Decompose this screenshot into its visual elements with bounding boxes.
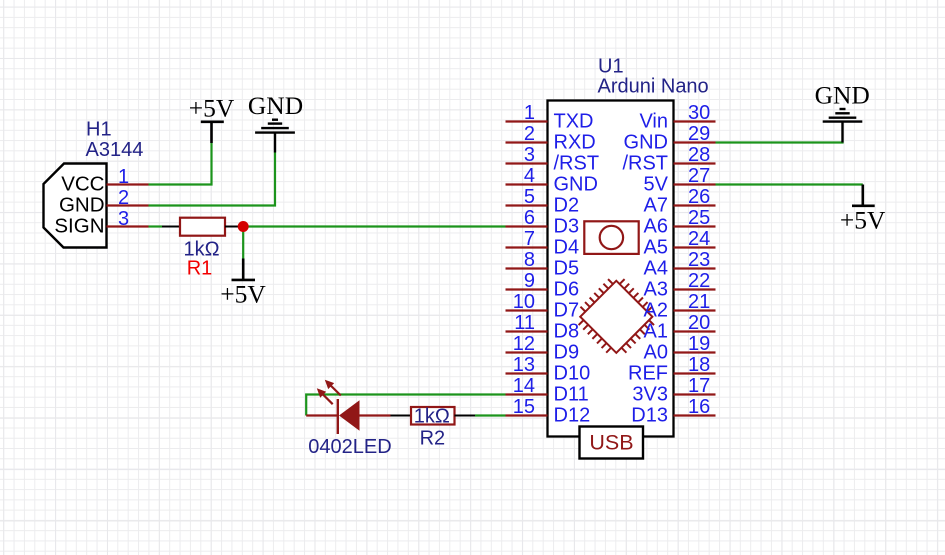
svg-text:26: 26 — [688, 186, 710, 208]
LED cathode bar — [337, 399, 339, 434]
svg-text:2: 2 — [118, 187, 129, 209]
svg-text:7: 7 — [524, 228, 535, 250]
wire junction to U1 pin 6 D3 — [243, 225, 505, 227]
svg-text:20: 20 — [688, 312, 710, 334]
svg-text:3: 3 — [118, 208, 129, 230]
svg-text:VCC: VCC — [61, 173, 104, 196]
ground symbol right — [823, 109, 863, 143]
svg-text:TXD: TXD — [554, 111, 594, 133]
svg-text:+5V: +5V — [189, 93, 235, 122]
resistor R2 body — [411, 407, 455, 425]
svg-text:U1: U1 — [598, 55, 624, 77]
svg-text:+5V: +5V — [220, 279, 266, 308]
svg-text:A0: A0 — [644, 342, 668, 364]
svg-text:28: 28 — [688, 144, 710, 166]
svg-text:3V3: 3V3 — [632, 384, 668, 406]
svg-text:13: 13 — [513, 354, 535, 376]
svg-text:Arduni Nano: Arduni Nano — [598, 76, 709, 98]
svg-text:5V: 5V — [644, 174, 669, 196]
svg-text:8: 8 — [524, 249, 535, 271]
svg-text:Vin: Vin — [639, 111, 668, 133]
svg-text:H1: H1 — [86, 119, 112, 141]
LED LED1 0402LED — [306, 380, 390, 434]
svg-text:30: 30 — [688, 102, 710, 124]
U1 reset button rectangle — [584, 221, 638, 254]
svg-text:A7: A7 — [644, 195, 668, 217]
svg-text:D10: D10 — [554, 363, 591, 385]
svg-text:27: 27 — [688, 165, 710, 187]
svg-text:GND: GND — [554, 174, 598, 196]
svg-text:D8: D8 — [554, 321, 580, 343]
svg-text:15: 15 — [513, 396, 535, 418]
svg-text:D3: D3 — [554, 216, 580, 238]
+5V power symbol right — [852, 185, 875, 206]
svg-text:1kΩ: 1kΩ — [414, 406, 450, 428]
wire U1 pin29 GND to ground right — [716, 141, 843, 144]
U1 USB connector box — [580, 427, 644, 459]
svg-text:1: 1 — [524, 102, 535, 124]
svg-text:GND: GND — [59, 194, 105, 217]
svg-text:D13: D13 — [631, 405, 668, 427]
svg-text:22: 22 — [688, 270, 710, 292]
svg-text:5: 5 — [524, 186, 535, 208]
svg-text:9: 9 — [524, 270, 535, 292]
svg-text:D7: D7 — [554, 300, 580, 322]
svg-text:/RST: /RST — [622, 153, 668, 175]
svg-text:A3144: A3144 — [86, 139, 144, 161]
resistor R1 lead left — [162, 226, 180, 228]
svg-text:/RST: /RST — [554, 153, 600, 175]
svg-text:D2: D2 — [554, 195, 580, 217]
svg-text:17: 17 — [688, 375, 710, 397]
svg-text:D12: D12 — [554, 405, 591, 427]
svg-text:3: 3 — [524, 144, 535, 166]
ground symbol top-left — [255, 120, 295, 153]
svg-text:4: 4 — [524, 165, 535, 187]
U1 left pins 1-15 — [306, 80, 886, 458]
+5V power symbol top-left — [201, 122, 224, 143]
svg-text:A5: A5 — [644, 237, 668, 259]
svg-text:D5: D5 — [554, 258, 580, 280]
svg-text:A2: A2 — [644, 300, 668, 322]
svg-text:A6: A6 — [644, 216, 668, 238]
U1 left pin names — [554, 111, 600, 427]
resistor R2 lead left — [391, 415, 412, 417]
svg-text:GND: GND — [815, 80, 870, 109]
svg-text:29: 29 — [688, 123, 710, 145]
U1 reset button circle — [600, 226, 623, 249]
wire junction to +5V below — [242, 227, 244, 259]
svg-text:D9: D9 — [554, 342, 580, 364]
H1 pin 1 stub — [107, 183, 149, 185]
svg-text:2: 2 — [524, 123, 535, 145]
svg-text:0402LED: 0402LED — [308, 436, 391, 458]
svg-text:6: 6 — [524, 207, 535, 229]
resistor R1 lead right — [225, 226, 243, 228]
LED emission arrow 2 — [325, 380, 341, 396]
svg-text:A3: A3 — [644, 279, 668, 301]
U1 right pin names — [622, 111, 668, 427]
resistor R1 body — [180, 218, 225, 236]
svg-text:USB: USB — [589, 431, 633, 455]
svg-text:D11: D11 — [554, 384, 589, 406]
H1 pin 3 stub — [107, 225, 149, 227]
LED emission arrow 1 — [317, 388, 333, 404]
U1 right pins 30-16 — [674, 122, 716, 416]
svg-text:19: 19 — [688, 333, 710, 355]
svg-text:D4: D4 — [554, 237, 580, 259]
svg-text:D6: D6 — [554, 279, 580, 301]
hall sensor H1 body — [44, 164, 107, 248]
svg-text:23: 23 — [688, 249, 710, 271]
svg-text:A1: A1 — [644, 321, 668, 343]
svg-text:10: 10 — [513, 291, 535, 313]
svg-text:18: 18 — [688, 354, 710, 376]
wire U1 pin27 5V to +5V right — [716, 183, 863, 185]
svg-text:14: 14 — [513, 375, 535, 397]
svg-text:11: 11 — [514, 312, 535, 334]
svg-text:12: 12 — [513, 333, 535, 355]
svg-text:A4: A4 — [644, 258, 668, 280]
U1 right pin numbers — [688, 102, 710, 418]
svg-text:GND: GND — [248, 91, 303, 120]
U1 body — [548, 101, 674, 437]
wire GND pin2 to ground — [149, 153, 276, 206]
svg-text:1: 1 — [118, 166, 129, 188]
junction node dot — [238, 221, 249, 232]
resistor R2 lead right — [455, 415, 476, 417]
svg-text:R2: R2 — [420, 428, 446, 450]
svg-text:REF: REF — [628, 363, 668, 385]
H1 pin 2 stub — [107, 204, 149, 206]
svg-text:GND: GND — [624, 132, 668, 154]
svg-text:RXD: RXD — [554, 132, 596, 154]
wire VCC to +5V — [149, 143, 212, 185]
wire U1 pin14 D11 to LED anode side — [306, 395, 505, 416]
U1 left pin numbers — [513, 102, 535, 418]
LED anode lead — [360, 414, 391, 416]
LED triangle — [339, 400, 360, 430]
svg-text:SIGN: SIGN — [54, 215, 104, 238]
svg-text:21: 21 — [688, 291, 710, 313]
svg-text:25: 25 — [688, 207, 710, 229]
svg-text:R1: R1 — [187, 257, 213, 279]
svg-text:16: 16 — [688, 396, 710, 418]
wire R2 to U1 pin15 D12 — [475, 414, 506, 416]
LED cathode lead — [306, 414, 338, 416]
svg-text:24: 24 — [688, 228, 710, 250]
svg-text:+5V: +5V — [840, 206, 886, 235]
+5V power symbol below R1 — [232, 259, 256, 280]
wire SIGN to R1 — [149, 225, 163, 227]
U1 MCU chip diamond with leads — [570, 271, 662, 363]
